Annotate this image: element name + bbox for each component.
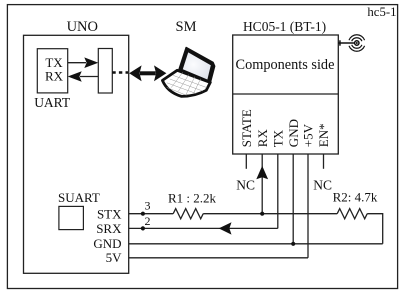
node GND junction [291,242,295,246]
svg-text:SUART: SUART [58,190,100,205]
pin +5V [307,154,309,258]
svg-text:HC05-1 (BT-1): HC05-1 (BT-1) [243,19,326,34]
antenna stub wire [338,42,354,44]
wire GND row [129,243,383,245]
USB double arrow [129,65,141,81]
svg-text:GND: GND [286,119,301,147]
pin EN* [323,154,325,169]
wire SRX row [129,227,278,229]
svg-text:R1 : 2.2k: R1 : 2.2k [168,191,217,206]
pin TX [277,154,279,228]
HC05 module box [233,35,339,154]
svg-text:2: 2 [145,214,151,228]
serial interface block [98,49,112,94]
arrow TX right [84,57,98,68]
svg-text:STATE: STATE [239,109,254,147]
arrow into RX [256,166,268,180]
node 2 dot [141,226,145,230]
node RX junction [260,212,264,216]
svg-text:SM: SM [176,19,197,35]
pin GND [292,154,294,244]
resistor R2 [337,209,367,219]
antenna waves [349,35,365,52]
wire RX node to R2 [262,213,337,215]
UNO box [24,35,129,273]
svg-text:NC: NC [313,178,332,193]
svg-text:hc5-1: hc5-1 [367,5,396,19]
node 3 dot [141,212,145,216]
svg-text:RX: RX [255,129,270,148]
components side divider [233,93,339,95]
antenna pin tick [339,40,341,45]
wire R1 to RX node [203,213,262,215]
svg-text:Components side: Components side [236,57,335,73]
svg-text:R2: 4.7k: R2: 4.7k [333,190,378,205]
resistor R1 [173,209,203,219]
wire R2 to corner [367,214,383,244]
wire interface to RX [80,76,98,78]
SUART box [59,206,84,229]
UART block TX/RX [37,49,67,93]
svg-text:SRX: SRX [96,221,122,236]
svg-text:EN*: EN* [316,123,331,147]
arrow to SRX [219,222,232,234]
wire 5V row [129,257,308,259]
svg-text:TX: TX [270,129,285,147]
svg-text:5V: 5V [106,250,123,265]
arrow RX left [68,71,82,82]
svg-text:GND: GND [93,236,121,251]
dashed wire to USB [112,71,128,74]
svg-text:RX: RX [45,69,64,84]
svg-text:UNO: UNO [67,19,98,35]
pin RX [261,154,263,214]
svg-text:NC: NC [236,178,255,193]
wire STX row [129,213,174,215]
svg-text:3: 3 [145,199,151,213]
svg-text:+5V: +5V [301,123,316,147]
antenna dot [355,41,359,45]
svg-text:UART: UART [34,95,71,110]
svg-text:STX: STX [97,206,122,221]
laptop SM [162,48,214,97]
pin STATE [245,154,247,169]
wire TX to interface [68,62,86,64]
